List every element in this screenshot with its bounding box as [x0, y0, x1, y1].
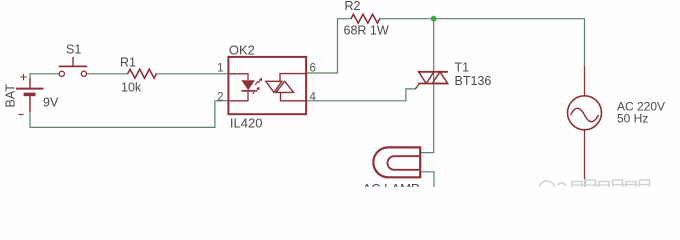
wire: OK2 pin 6 up to top rail and through R2 to AC source [306, 19, 351, 73]
svg-text:10k: 10k [121, 81, 142, 95]
svg-text:4: 4 [310, 92, 317, 104]
svg-text:R2: R2 [345, 0, 361, 13]
resistor R2 [351, 14, 380, 23]
opto-triac inside OK2 [266, 74, 306, 101]
watermark [539, 180, 650, 197]
optocoupler OK2 box [228, 57, 306, 114]
wire: R2 to junction to right corner and down [380, 19, 585, 67]
svg-text:IL420: IL420 [230, 115, 263, 130]
wire: OK2 pin 2 down to bottom rail [215, 101, 229, 128]
svg-text:T1: T1 [455, 61, 470, 75]
wire: AC source bottom to bottom edge [584, 179, 586, 188]
photon arrows [253, 78, 263, 95]
wire: lamp bottom to bottom edge [420, 172, 434, 187]
svg-text:9V: 9V [43, 96, 59, 110]
svg-text:R1: R1 [120, 56, 136, 70]
transistor T1 (triac) [415, 72, 448, 89]
LED inside OK2 [230, 74, 255, 101]
svg-text:OK2: OK2 [229, 43, 255, 58]
svg-text:1: 1 [217, 63, 223, 75]
svg-text:AC LAMP: AC LAMP [363, 181, 420, 187]
svg-text:6: 6 [310, 63, 316, 75]
wire: junction down through T1 to lamp [420, 19, 434, 153]
AC source [568, 66, 602, 178]
battery BAT [16, 74, 44, 115]
svg-text:2: 2 [217, 92, 223, 104]
wire: battery plus to switch [30, 74, 59, 89]
node junction dot [431, 16, 436, 21]
wire: switch to R1 [87, 73, 128, 75]
battery labels [4, 84, 59, 110]
wire: bottom rail battery minus [30, 95, 215, 127]
svg-text:BT136: BT136 [455, 74, 492, 88]
svg-text:68R 1W: 68R 1W [344, 24, 389, 38]
svg-text:S1: S1 [66, 43, 81, 57]
switch S1 [59, 57, 87, 76]
lamp AC LAMP [373, 147, 420, 177]
wire: OK2 pin 4 to T1 gate [306, 89, 415, 101]
resistor R1 [128, 69, 157, 78]
svg-text:BAT: BAT [4, 84, 18, 108]
wire: R1 to OK2 pin 1 [156, 73, 228, 75]
svg-text:50 Hz: 50 Hz [617, 111, 648, 125]
